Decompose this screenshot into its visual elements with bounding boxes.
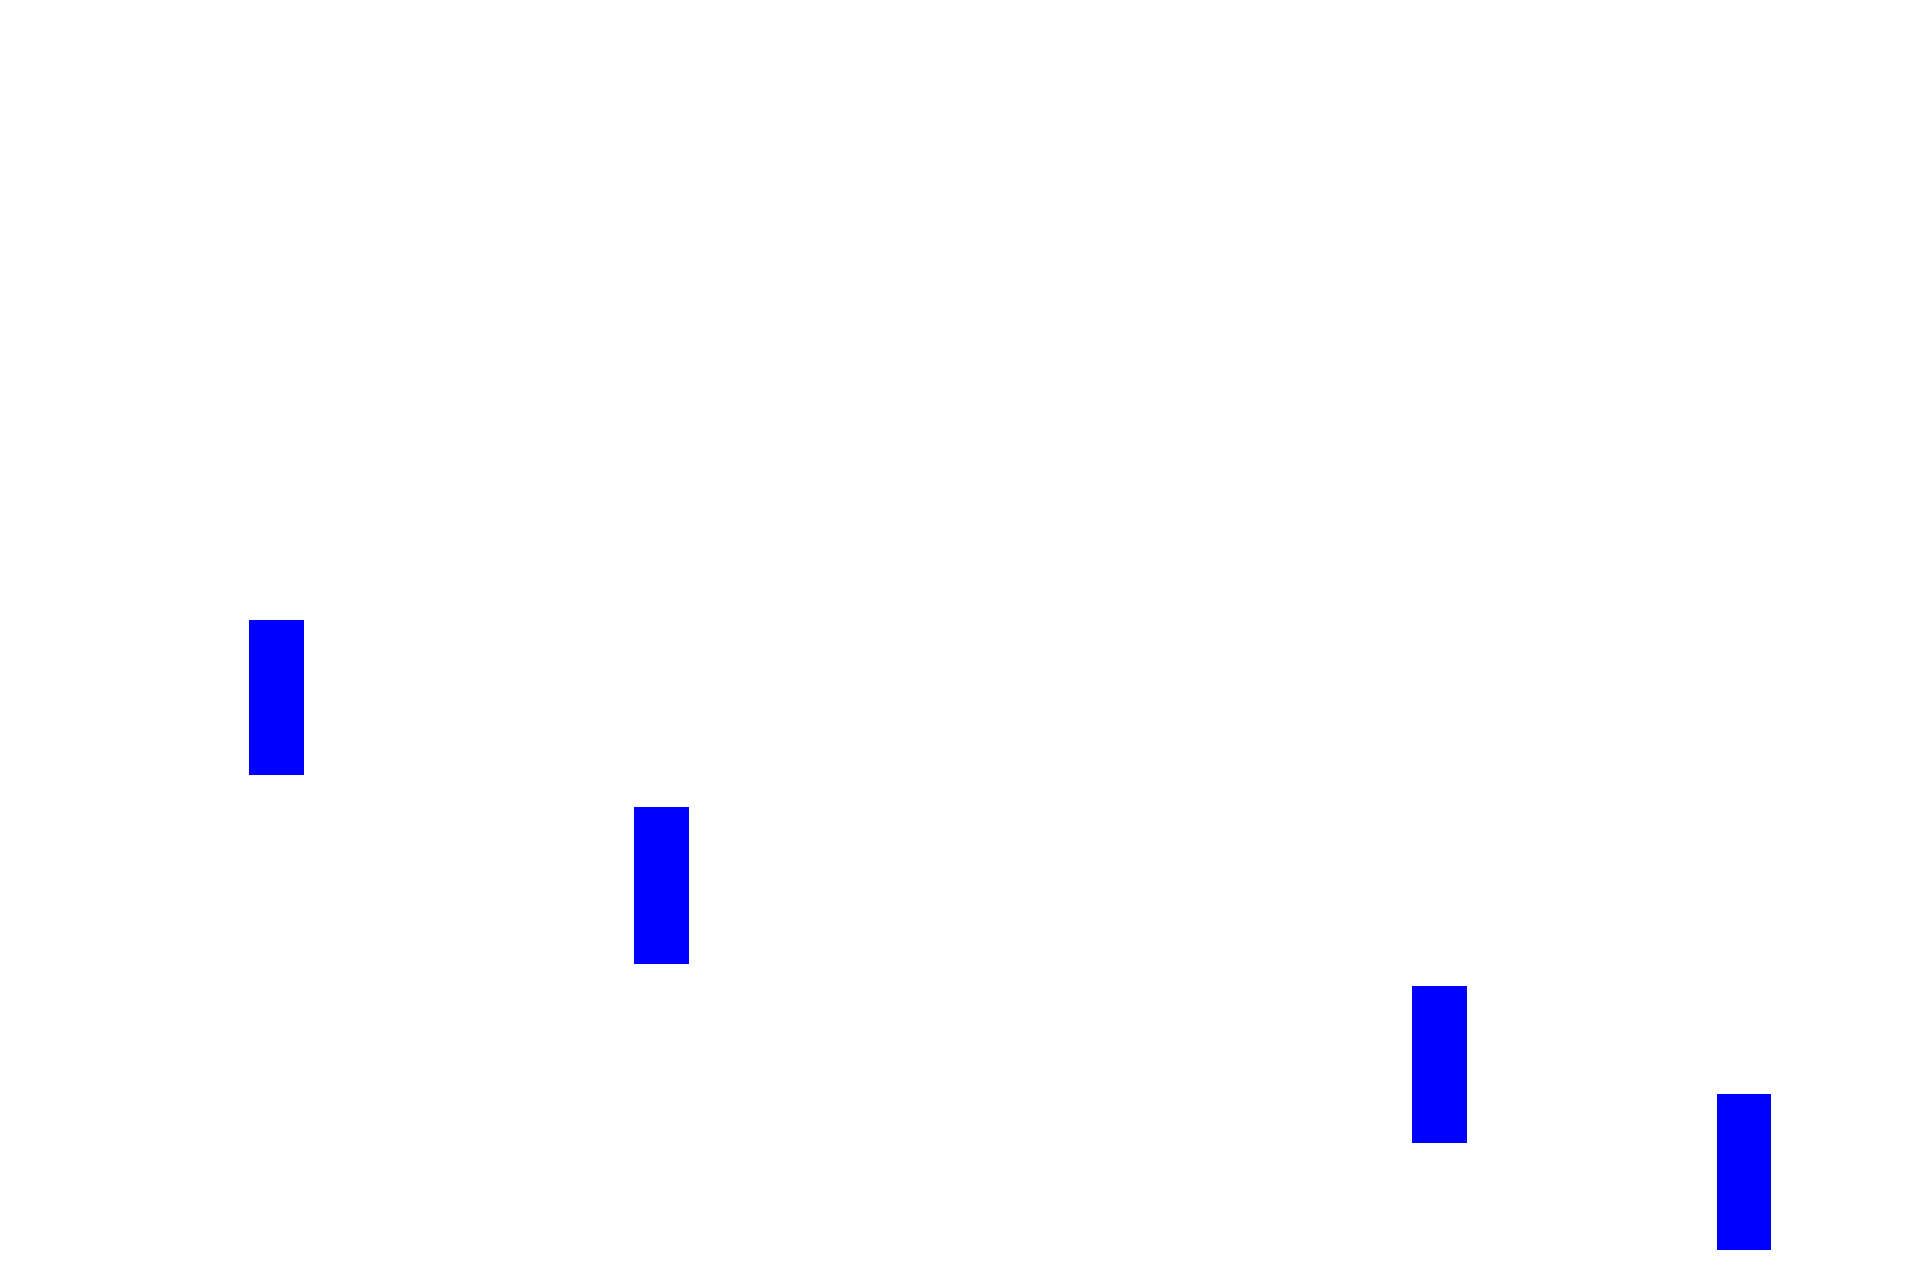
blue block 1 bbox=[249, 620, 304, 775]
blue block 2 bbox=[634, 807, 689, 964]
blue block 4 bbox=[1717, 1094, 1771, 1250]
blue block 3 bbox=[1412, 986, 1467, 1143]
